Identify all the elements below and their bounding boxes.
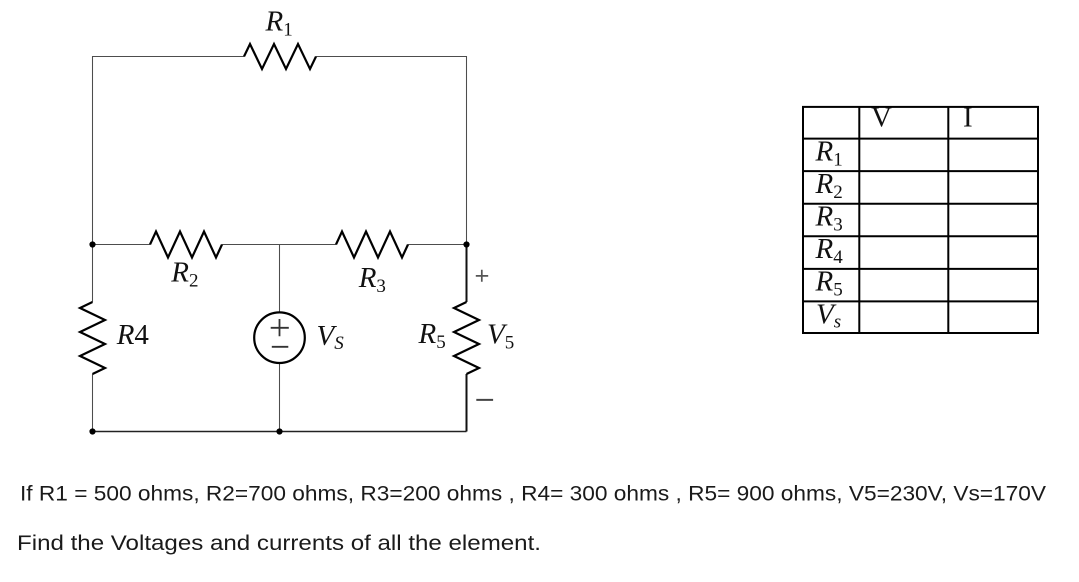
svg-text:R3: R3: [815, 201, 843, 236]
svg-text:VS: VS: [317, 320, 345, 354]
svg-text:If R1 = 500 ohms, R2=700 ohms,: If R1 = 500 ohms, R2=700 ohms, R3=200 oh…: [20, 483, 1046, 506]
svg-text:V: V: [871, 102, 892, 134]
svg-text:R1: R1: [265, 6, 293, 41]
svg-text:R4: R4: [815, 233, 844, 268]
svg-text:R4: R4: [116, 319, 150, 351]
svg-text:R3: R3: [358, 262, 386, 297]
svg-text:R5: R5: [418, 318, 446, 353]
svg-text:R2: R2: [815, 168, 843, 203]
svg-text:R2: R2: [170, 257, 198, 292]
svg-text:V5: V5: [487, 319, 514, 354]
svg-text:I: I: [963, 102, 973, 134]
svg-text:R1: R1: [815, 135, 843, 170]
svg-text:Find the Voltages and currents: Find the Voltages and currents of all th…: [17, 532, 541, 555]
svg-text:R5: R5: [815, 266, 843, 301]
svg-text:Vs: Vs: [816, 298, 841, 332]
